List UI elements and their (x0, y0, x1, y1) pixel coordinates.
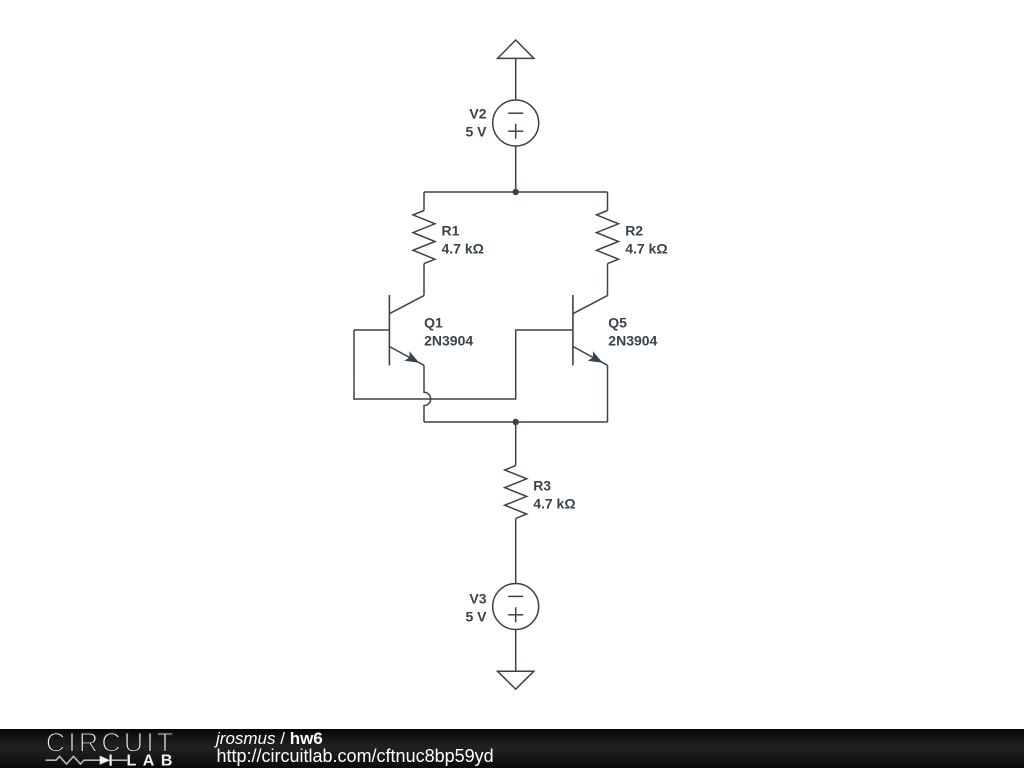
svg-text:LAB: LAB (127, 753, 179, 768)
svg-text:V2: V2 (469, 105, 486, 121)
svg-text:R1: R1 (442, 222, 460, 238)
svg-text:5 V: 5 V (465, 609, 487, 625)
svg-text:V3: V3 (469, 591, 486, 607)
svg-text:R2: R2 (625, 222, 643, 238)
svg-text:4.7 kΩ: 4.7 kΩ (442, 240, 484, 256)
svg-text:2N3904: 2N3904 (608, 333, 657, 349)
svg-text:Q5: Q5 (608, 315, 627, 331)
svg-text:R3: R3 (533, 477, 551, 493)
svg-text:Q1: Q1 (424, 315, 443, 331)
svg-text:4.7 kΩ: 4.7 kΩ (625, 240, 667, 256)
svg-text:5 V: 5 V (465, 124, 487, 140)
svg-text:4.7 kΩ: 4.7 kΩ (533, 495, 575, 511)
svg-text:2N3904: 2N3904 (424, 333, 473, 349)
